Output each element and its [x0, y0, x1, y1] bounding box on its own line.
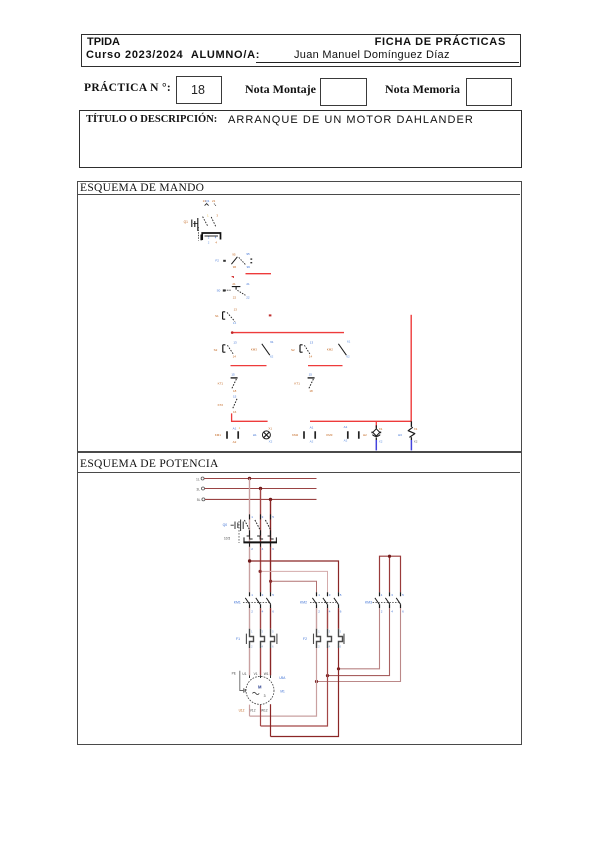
- wire phase3 column: [270, 499, 272, 592]
- supply line L3: [205, 498, 317, 500]
- svg-text:15: 15: [233, 395, 237, 399]
- svg-text:KT1: KT1: [218, 381, 224, 385]
- svg-text:1: 1: [207, 213, 209, 217]
- junction L2: [259, 487, 262, 490]
- svg-text:4: 4: [215, 240, 217, 244]
- svg-text:2: 2: [251, 547, 253, 551]
- svg-text:F2: F2: [303, 637, 307, 641]
- practica row: [84, 82, 171, 94]
- svg-text:2: 2: [381, 609, 383, 613]
- svg-text:A2: A2: [310, 439, 314, 443]
- svg-text:18: 18: [233, 389, 237, 393]
- contact KM2 NC: [327, 339, 351, 358]
- thermal relay F2: [303, 629, 344, 649]
- coil KM2: [292, 425, 315, 443]
- svg-text:16: 16: [233, 410, 237, 414]
- wire stub node: [232, 277, 234, 278]
- svg-text:U12: U12: [239, 708, 245, 712]
- timer contact KT1 left: [218, 373, 238, 393]
- svg-text:15: 15: [309, 373, 313, 377]
- svg-text:14: 14: [309, 354, 313, 358]
- svg-text:21: 21: [246, 282, 250, 286]
- svg-text:3: 3: [329, 593, 331, 597]
- svg-text:1: 1: [251, 630, 253, 634]
- svg-text:U5A: U5A: [279, 676, 286, 680]
- wire KM3 pole1 to star tie: [339, 608, 380, 669]
- svg-text:Q1: Q1: [205, 199, 209, 203]
- wire phase1 column: [249, 478, 251, 592]
- svg-text:6: 6: [340, 609, 342, 613]
- contactor KM1: [234, 592, 274, 613]
- node red dot: [269, 314, 272, 316]
- svg-text:3: 3: [216, 213, 218, 217]
- svg-text:14: 14: [233, 354, 237, 358]
- esquema de mando box: [77, 181, 522, 453]
- wire red row3 right: [308, 365, 343, 367]
- pushbutton S1: [215, 308, 237, 325]
- svg-text:96: 96: [247, 265, 251, 269]
- svg-text:4: 4: [391, 609, 393, 613]
- wire KM3 pole3 to star tie: [317, 608, 401, 681]
- timer contact KT2: [218, 395, 237, 414]
- svg-text:KM2: KM2: [300, 601, 307, 605]
- star bridge KM3: [380, 556, 401, 592]
- svg-text:95: 95: [246, 252, 250, 256]
- svg-text:13: 13: [233, 340, 237, 344]
- flasher H3: [398, 421, 418, 450]
- main red bus wire: [232, 332, 345, 334]
- svg-text:KM1: KM1: [234, 601, 241, 605]
- svg-text:S1: S1: [215, 314, 219, 318]
- svg-text:22: 22: [246, 295, 250, 299]
- svg-text:W12: W12: [261, 708, 268, 712]
- svg-text:15: 15: [231, 373, 235, 377]
- svg-text:KM3: KM3: [326, 433, 333, 437]
- motor terminal ticks: [250, 675, 271, 678]
- wire red coil row right: [310, 420, 411, 422]
- svg-text:X1: X1: [414, 427, 418, 431]
- svg-text:S2: S2: [291, 348, 295, 352]
- svg-text:14: 14: [233, 321, 237, 325]
- wire feed KM2 pole2: [261, 571, 328, 592]
- coil KM1: [215, 426, 241, 444]
- svg-text:3: 3: [329, 630, 331, 634]
- svg-text:13: 13: [234, 308, 238, 312]
- svg-text:X2: X2: [379, 439, 383, 443]
- wire KM1 poles to F1: [249, 608, 251, 629]
- supply line L1: [204, 478, 316, 480]
- wire feed KM2 pole1: [271, 581, 317, 592]
- svg-text:X2: X2: [269, 440, 273, 444]
- breaker Q0: [223, 514, 271, 543]
- svg-text:21: 21: [232, 282, 236, 286]
- svg-text:KM2: KM2: [327, 347, 334, 351]
- svg-text:6: 6: [272, 547, 274, 551]
- svg-text:4: 4: [329, 644, 331, 648]
- wire F2 down to motor V2: [261, 648, 328, 726]
- svg-text:V1: V1: [254, 672, 258, 676]
- svg-text:A1: A1: [310, 425, 314, 429]
- svg-text:6: 6: [340, 644, 342, 648]
- wire red row3 left: [231, 365, 267, 367]
- svg-text:21: 21: [212, 199, 216, 203]
- svg-text:KM3: KM3: [365, 601, 372, 605]
- svg-text:1: 1: [318, 593, 320, 597]
- wire feed KM2 pole3: [250, 561, 339, 592]
- wire F2 down to motor U2: [250, 648, 317, 716]
- lamp H1: [253, 427, 273, 444]
- svg-text:2: 2: [251, 609, 253, 613]
- contact KM3 NC: [251, 340, 274, 358]
- svg-text:5: 5: [272, 515, 274, 519]
- pushbutton S0 stop: [217, 282, 250, 299]
- svg-text:5: 5: [402, 593, 404, 597]
- wire motor U2 stub: [249, 705, 251, 717]
- esquema de potencia box: [77, 451, 522, 745]
- svg-text:KM3: KM3: [251, 347, 257, 351]
- svg-text:18: 18: [309, 389, 313, 393]
- contact KM1 13-14: [214, 340, 237, 358]
- svg-text:S0: S0: [217, 288, 221, 292]
- svg-text:H3: H3: [398, 433, 402, 437]
- svg-text:5: 5: [272, 593, 274, 597]
- svg-text:1: 1: [251, 515, 253, 519]
- svg-text:KM1: KM1: [215, 433, 222, 437]
- wire phase2 column: [260, 489, 262, 593]
- svg-text:M1: M1: [280, 690, 285, 694]
- timer contact KT1 right: [294, 373, 314, 393]
- svg-text:1: 1: [251, 593, 253, 597]
- svg-text:61: 61: [347, 339, 351, 343]
- svg-text:22: 22: [233, 295, 237, 299]
- sounder H2: [363, 425, 383, 450]
- svg-text:61: 61: [270, 340, 274, 344]
- svg-text:2: 2: [251, 644, 253, 648]
- svg-text:10.5: 10.5: [224, 537, 230, 541]
- svg-text:2: 2: [318, 609, 320, 613]
- svg-text:KM2: KM2: [292, 433, 299, 437]
- svg-text:1L: 1L: [196, 477, 200, 481]
- box nota montaje: [320, 78, 367, 106]
- svg-text:4: 4: [329, 609, 331, 613]
- wire red drop to H2: [375, 421, 377, 427]
- wire red after F2: [246, 273, 272, 275]
- svg-text:X2: X2: [414, 439, 418, 443]
- wire KM2 poles to F2: [316, 608, 318, 629]
- svg-text:5L: 5L: [197, 498, 201, 502]
- svg-text:3: 3: [262, 630, 264, 634]
- svg-text:2: 2: [208, 240, 210, 244]
- contactor KM2: [300, 592, 342, 613]
- svg-text:4: 4: [262, 547, 264, 551]
- svg-text:S2: S2: [214, 348, 218, 352]
- aux contact 13-14 top: [203, 199, 210, 206]
- svg-text:62: 62: [346, 355, 350, 359]
- header box TPIDA / FICHA DE PRACTICAS: [81, 34, 521, 67]
- svg-text:A2: A2: [344, 439, 348, 443]
- wire red coil row left: [232, 413, 268, 421]
- junction L1: [248, 477, 251, 480]
- svg-text:Q0: Q0: [223, 523, 228, 527]
- wire F2 down to motor W2: [271, 648, 339, 737]
- wire motor W2 stub: [270, 704, 272, 736]
- svg-text:3L: 3L: [196, 488, 200, 492]
- svg-text:X1: X1: [379, 427, 383, 431]
- svg-text:KT2: KT2: [218, 403, 224, 407]
- junction L3: [269, 498, 272, 501]
- svg-text:4: 4: [262, 644, 264, 648]
- supply line L2: [205, 488, 317, 490]
- svg-text:3: 3: [391, 593, 393, 597]
- svg-text:F1: F1: [236, 637, 240, 641]
- svg-text:6: 6: [272, 644, 274, 648]
- svg-text:V12: V12: [250, 708, 256, 712]
- svg-text:62: 62: [270, 355, 274, 359]
- svg-text:U1: U1: [242, 672, 246, 676]
- svg-text:M: M: [258, 685, 262, 690]
- contactor KM3: [365, 592, 404, 613]
- svg-text:1: 1: [239, 426, 241, 430]
- svg-text:3: 3: [262, 515, 264, 519]
- svg-text:A1: A1: [344, 425, 348, 429]
- disconnector Q1: [184, 213, 219, 231]
- thermal element of Q1: [198, 227, 220, 244]
- svg-text:5: 5: [340, 593, 342, 597]
- box numero practica: [176, 76, 222, 104]
- thermal relay F1: [236, 629, 277, 649]
- svg-text:96: 96: [233, 265, 237, 269]
- svg-text:H2: H2: [363, 433, 367, 437]
- coil KM3: [326, 425, 359, 442]
- aux contact 21-22 top: [212, 199, 216, 206]
- wire KM3 pole2 to star tie: [328, 608, 390, 676]
- svg-text:3: 3: [262, 593, 264, 597]
- svg-text:13: 13: [310, 340, 314, 344]
- svg-text:A2: A2: [233, 440, 237, 444]
- svg-text:X1: X1: [268, 427, 272, 431]
- red rail right vertical: [410, 315, 412, 422]
- svg-text:6: 6: [402, 609, 404, 613]
- svg-text:95: 95: [232, 252, 236, 256]
- box nota memoria: [466, 78, 512, 106]
- wire motor V2 stub: [260, 705, 262, 726]
- svg-text:Q1: Q1: [184, 220, 188, 224]
- svg-text:H1: H1: [253, 433, 257, 437]
- svg-text:3: 3: [264, 694, 266, 698]
- svg-text:2: 2: [318, 644, 320, 648]
- svg-text:1: 1: [381, 593, 383, 597]
- motor M1: [246, 676, 286, 704]
- svg-text:1: 1: [318, 630, 320, 634]
- titulo box: [79, 110, 522, 168]
- svg-text:A1: A1: [233, 426, 237, 430]
- PE conductor: [232, 671, 246, 693]
- svg-text:KT1: KT1: [294, 381, 300, 385]
- svg-text:5: 5: [272, 630, 274, 634]
- svg-text:F2: F2: [215, 259, 219, 263]
- overload NC contact F2 95-96: [215, 252, 252, 269]
- thermal trip block of Q0: [243, 536, 277, 551]
- contact S2: [291, 340, 313, 358]
- wire F1 to motor: [249, 648, 251, 675]
- svg-text:4: 4: [262, 609, 264, 613]
- svg-text:PE: PE: [232, 672, 236, 676]
- svg-text:W1: W1: [264, 672, 269, 676]
- svg-text:5: 5: [340, 630, 342, 634]
- svg-text:6: 6: [272, 609, 274, 613]
